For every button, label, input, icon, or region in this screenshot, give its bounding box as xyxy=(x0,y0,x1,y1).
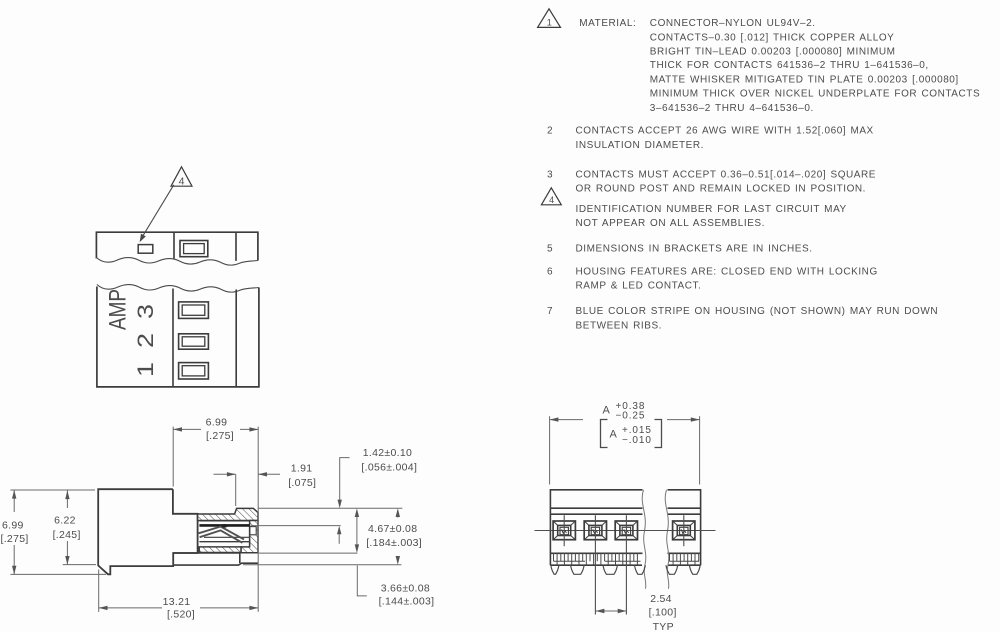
wavy break line left xyxy=(642,490,646,589)
svg-text:3–641536–2 THRU 4–641536–0.: 3–641536–2 THRU 4–641536–0. xyxy=(650,103,814,114)
dim 13.21 line and arrows xyxy=(99,607,162,609)
contact slot 3 xyxy=(179,302,209,319)
svg-text:RAMP & LED CONTACT.: RAMP & LED CONTACT. xyxy=(576,281,702,292)
dim 6.99 extension lines xyxy=(172,427,174,487)
dim 1.91 extension line xyxy=(235,474,237,506)
svg-text:5: 5 xyxy=(547,244,553,255)
dim 5.99 top reference line xyxy=(10,489,95,491)
wavy break line right xyxy=(665,490,669,589)
wavy break line upper piece xyxy=(96,258,258,266)
reference line B contact beam extended xyxy=(251,525,341,527)
svg-text:OR ROUND POST AND REMAIN LOCKE: OR ROUND POST AND REMAIN LOCKED IN POSIT… xyxy=(576,184,867,195)
svg-text:13.21: 13.21 xyxy=(163,596,191,608)
svg-text:DIMENSIONS IN BRACKETS ARE IN: DIMENSIONS IN BRACKETS ARE IN INCHES. xyxy=(576,244,813,255)
body right section outline xyxy=(668,490,701,565)
spring contact dot xyxy=(221,524,227,528)
hatched bottom wall of contact cavity xyxy=(199,547,241,553)
body left section outline xyxy=(550,490,642,565)
dim 6.22 vertical with arrows xyxy=(66,491,68,509)
divider wall lines lower piece xyxy=(172,289,174,387)
dim 2.54 TYP line and arrows xyxy=(596,610,627,612)
wavy break line lower piece xyxy=(97,285,259,293)
dim 4.67 arrows at x=397.8 xyxy=(397,511,399,518)
comb mid lines xyxy=(554,560,700,562)
svg-text:[.245]: [.245] xyxy=(53,529,81,541)
svg-text:[.100]: [.100] xyxy=(649,606,677,618)
svg-text:TYP: TYP xyxy=(653,621,674,632)
svg-text:3: 3 xyxy=(133,304,158,319)
mounting comb teeth xyxy=(554,553,699,565)
contact spring strip xyxy=(199,527,244,543)
dim 1.42 lower arrow xyxy=(338,531,340,544)
svg-text:4.67±0.08: 4.67±0.08 xyxy=(368,523,417,535)
svg-text:HOUSING FEATURES ARE: CLOSED E: HOUSING FEATURES ARE: CLOSED END WITH LO… xyxy=(576,266,878,277)
svg-text:AMP: AMP xyxy=(104,289,131,330)
svg-text:[.520]: [.520] xyxy=(167,609,195,621)
reference line C front bottom extended xyxy=(259,552,357,554)
note 4 callout triangle xyxy=(171,167,192,186)
rear housing outline xyxy=(98,489,197,574)
housing lower piece outline xyxy=(97,287,259,387)
svg-text:[.144±.003]: [.144±.003] xyxy=(379,596,435,608)
dim 5.99 vertical with arrows xyxy=(13,490,15,512)
housing upper piece outline xyxy=(96,232,258,260)
svg-text:THICK FOR CONTACTS 641536–2 TH: THICK FOR CONTACTS 641536–2 THRU 1–64153… xyxy=(650,60,929,71)
svg-text:−.010: −.010 xyxy=(622,435,652,446)
dim 1.42 upper bracket and arrow xyxy=(340,458,350,503)
contact slot 1 xyxy=(179,363,209,379)
hatched top wall of contact cavity xyxy=(198,508,258,520)
svg-text:A: A xyxy=(610,429,618,441)
divider wall lines upper piece xyxy=(173,232,175,259)
contact post position 2 xyxy=(584,515,606,614)
svg-text:BRIGHT TIN–LEAD 0.00203 [.0000: BRIGHT TIN–LEAD 0.00203 [.000080] MINIMU… xyxy=(650,47,896,58)
identification number recess xyxy=(138,245,153,254)
svg-text:−0.25: −0.25 xyxy=(616,411,646,422)
svg-text:3.66±0.08: 3.66±0.08 xyxy=(381,582,430,594)
svg-text:CONTACTS MUST ACCEPT 0.36–0.51: CONTACTS MUST ACCEPT 0.36–0.51[.014–.020… xyxy=(576,170,877,181)
svg-text:MATTE WHISKER MITIGATED TIN PL: MATTE WHISKER MITIGATED TIN PLATE 0.0020… xyxy=(650,75,959,86)
reference line D lower step extended xyxy=(243,564,401,566)
note 4 triangle symbol xyxy=(541,188,561,205)
dim 6.22 bottom reference line xyxy=(63,564,96,566)
svg-text:CONNECTOR–NYLON UL94V–2.: CONNECTOR–NYLON UL94V–2. xyxy=(650,18,816,29)
hatched right wall (mating face) xyxy=(241,521,258,553)
dim A extension lines xyxy=(549,416,551,484)
svg-text:NOT APPEAR ON ALL ASSEMBLIES.: NOT APPEAR ON ALL ASSEMBLIES. xyxy=(576,218,765,229)
reference line A nose top xyxy=(258,507,402,509)
contact post position 3 xyxy=(615,515,637,614)
dim A bracket text xyxy=(601,420,608,448)
svg-text:BETWEEN RIBS.: BETWEEN RIBS. xyxy=(576,320,663,331)
dim 3.66 vertical with arrows (A to C) xyxy=(356,512,358,550)
horizontal centerline xyxy=(535,530,716,532)
dim 5.99 bottom reference line xyxy=(10,573,106,575)
svg-text:1.91: 1.91 xyxy=(291,462,313,474)
contact slot 2 xyxy=(179,334,209,349)
svg-text:2.54: 2.54 xyxy=(650,593,672,605)
dim 1.91 arrows xyxy=(214,473,236,475)
svg-text:[.056±.004]: [.056±.004] xyxy=(361,461,417,473)
svg-text:2: 2 xyxy=(133,333,158,348)
svg-text:INSULATION DIAMETER.: INSULATION DIAMETER. xyxy=(576,140,705,151)
post entry hole in mating face xyxy=(250,527,256,535)
note 1 triangle symbol xyxy=(538,9,561,28)
contact slot upper piece xyxy=(180,241,208,257)
svg-text:4: 4 xyxy=(179,175,185,187)
contact top beam (thick) xyxy=(199,524,249,527)
svg-text:CONTACTS ACCEPT 26 AWG WIRE WI: CONTACTS ACCEPT 26 AWG WIRE WITH 1.52[.0… xyxy=(576,126,874,137)
svg-text:MINIMUM THICK OVER NICKEL UNDE: MINIMUM THICK OVER NICKEL UNDERPLATE FOR… xyxy=(650,89,980,100)
svg-text:A: A xyxy=(603,405,611,417)
svg-text:[.275]: [.275] xyxy=(1,533,29,545)
svg-text:6: 6 xyxy=(547,266,553,277)
svg-text:1: 1 xyxy=(133,362,158,377)
svg-text:6.22: 6.22 xyxy=(54,515,76,527)
dim 3.66 leader xyxy=(357,566,367,596)
svg-text:CONTACTS–0.30 [.012] THICK COP: CONTACTS–0.30 [.012] THICK COPPER ALLOY xyxy=(650,32,895,43)
svg-text:IDENTIFICATION NUMBER FOR LAST: IDENTIFICATION NUMBER FOR LAST CIRCUIT M… xyxy=(576,204,847,215)
svg-text:[.275]: [.275] xyxy=(206,430,234,442)
contact post position 1 xyxy=(553,515,575,546)
contact cavity lines xyxy=(199,520,249,522)
svg-text:4: 4 xyxy=(549,195,554,205)
svg-text:6.99: 6.99 xyxy=(2,519,24,531)
dim 6.99 arrows xyxy=(173,428,201,430)
svg-text:[.184±.003]: [.184±.003] xyxy=(366,537,422,549)
svg-text:2: 2 xyxy=(547,126,553,137)
svg-text:[.075]: [.075] xyxy=(288,477,316,489)
mounting legs xyxy=(551,565,700,574)
lower front housing outline xyxy=(173,553,258,565)
leader arrow from triangle to recess xyxy=(141,185,174,239)
svg-text:MATERIAL:: MATERIAL: xyxy=(579,18,636,29)
svg-text:6.99: 6.99 xyxy=(206,417,228,429)
svg-text:3: 3 xyxy=(547,170,553,181)
dim 13.21 extension line left xyxy=(98,570,100,612)
svg-text:7: 7 xyxy=(547,306,553,317)
svg-text:1: 1 xyxy=(547,17,552,27)
svg-text:1.42±0.10: 1.42±0.10 xyxy=(363,447,412,459)
dim A line and arrows xyxy=(550,419,583,421)
contact post position 4 xyxy=(673,515,695,546)
svg-text:BLUE COLOR STRIPE ON HOUSING (: BLUE COLOR STRIPE ON HOUSING (NOT SHOWN)… xyxy=(576,306,939,317)
